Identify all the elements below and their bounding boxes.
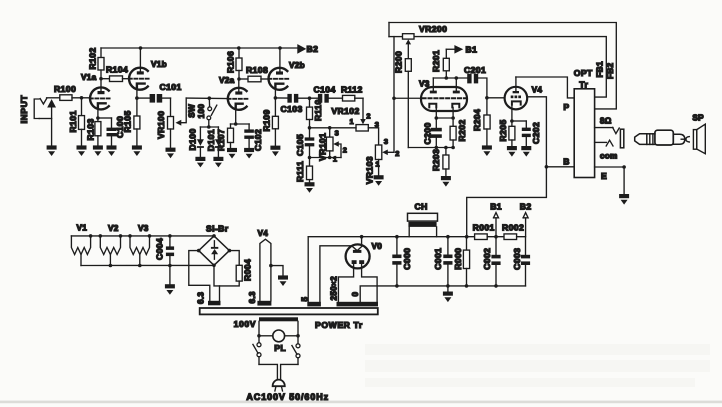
svg-text:C103: C103 bbox=[281, 104, 303, 114]
AC plug bbox=[273, 380, 285, 387]
svg-text:100V: 100V bbox=[234, 319, 256, 329]
wire B to OPT bbox=[546, 166, 574, 168]
wire bottom bus bbox=[310, 157, 342, 159]
svg-text:R002: R002 bbox=[502, 223, 524, 233]
svg-text:R100: R100 bbox=[54, 84, 76, 94]
wire B+ feed bbox=[467, 167, 547, 237]
svg-text:R102: R102 bbox=[88, 47, 98, 69]
lamp PL bbox=[259, 335, 273, 337]
wire VR102 right to VR103 bbox=[368, 128, 378, 145]
wire V0 plates to HV winding bbox=[338, 264, 353, 302]
wire bridge DC- bbox=[214, 265, 220, 301]
svg-text:V1b: V1b bbox=[151, 60, 167, 69]
transformer POWER Tr core bbox=[200, 308, 378, 314]
wire V2a cathode bus bbox=[231, 123, 250, 125]
svg-text:B1: B1 bbox=[466, 45, 478, 55]
svg-text:R204: R204 bbox=[472, 109, 482, 131]
wire primary right bbox=[297, 321, 299, 344]
svg-text:R000: R000 bbox=[453, 248, 463, 270]
ground (E) bbox=[619, 194, 629, 205]
wire primary left bbox=[258, 321, 260, 342]
jack shorting contact bbox=[48, 101, 55, 107]
input jack J1 bbox=[34, 99, 39, 119]
svg-text:VR200: VR200 bbox=[419, 24, 447, 34]
svg-text:V3: V3 bbox=[138, 224, 149, 233]
svg-text:Si-Br: Si-Br bbox=[206, 224, 229, 234]
svg-text:2: 2 bbox=[366, 112, 370, 121]
svg-text:0: 0 bbox=[351, 292, 360, 297]
svg-text:R200: R200 bbox=[394, 51, 404, 73]
svg-text:1: 1 bbox=[350, 117, 354, 126]
svg-text:V1: V1 bbox=[77, 224, 88, 233]
svg-text:PL: PL bbox=[274, 343, 286, 353]
svg-text:R004: R004 bbox=[242, 259, 252, 281]
svg-text:VR102: VR102 bbox=[331, 106, 359, 116]
ground (C001) bbox=[443, 292, 453, 303]
wire R200 bottom bus bbox=[408, 147, 453, 149]
svg-text:com: com bbox=[600, 152, 618, 161]
node (V2a plate) bbox=[237, 77, 241, 81]
ground (R205) bbox=[507, 146, 517, 157]
wire V4 screen to B bbox=[527, 97, 546, 167]
svg-text:C001: C001 bbox=[433, 248, 443, 270]
svg-text:OPT: OPT bbox=[574, 68, 593, 78]
node B1 (arrow up) bbox=[495, 218, 497, 237]
node (V4 cathode) bbox=[510, 119, 514, 123]
svg-text:SP: SP bbox=[692, 113, 704, 122]
svg-text:C003: C003 bbox=[512, 248, 522, 270]
node B2 (arrow up) bbox=[523, 213, 528, 218]
svg-text:D100: D100 bbox=[188, 128, 198, 150]
node (V4 grid) bbox=[485, 96, 489, 100]
wire VR100 wiper to V2a grid bbox=[186, 97, 228, 100]
svg-text:B2: B2 bbox=[520, 202, 532, 212]
svg-text:FB1: FB1 bbox=[596, 61, 605, 78]
ground (C102) bbox=[244, 148, 254, 159]
wire V4 plate to OPT P bbox=[516, 77, 574, 98]
wire R100 to V1a grid bbox=[72, 97, 90, 99]
svg-text:C202: C202 bbox=[531, 122, 541, 144]
svg-text:B: B bbox=[563, 157, 570, 167]
node (R101 tap) bbox=[80, 96, 84, 100]
svg-text:R203: R203 bbox=[431, 149, 441, 171]
svg-text:2: 2 bbox=[395, 149, 399, 158]
wire cathode bus bbox=[436, 117, 453, 119]
wire jack to R100 bbox=[47, 97, 60, 99]
ground (R105) bbox=[132, 145, 142, 156]
svg-text:3: 3 bbox=[335, 128, 339, 137]
ground (input) bbox=[47, 145, 57, 156]
svg-text:B1: B1 bbox=[490, 202, 502, 212]
ground (R101) bbox=[77, 145, 87, 156]
svg-text:6.3: 6.3 bbox=[248, 291, 257, 303]
svg-text:1: 1 bbox=[375, 160, 379, 169]
speaker jack com contact bbox=[595, 141, 607, 143]
ground (R109) bbox=[270, 146, 280, 157]
node (V1a cathode) bbox=[96, 116, 100, 120]
wire B2 rail bbox=[101, 47, 298, 49]
node B2 (arrow) bbox=[298, 46, 304, 53]
ground (R107) bbox=[227, 148, 237, 159]
svg-text:R108: R108 bbox=[246, 65, 268, 75]
svg-text:V4: V4 bbox=[258, 229, 269, 238]
ground (D101) bbox=[213, 157, 223, 168]
svg-text:D101: D101 bbox=[206, 129, 216, 151]
svg-text:100: 100 bbox=[197, 104, 206, 119]
svg-text:R101: R101 bbox=[68, 110, 78, 132]
ground (R204) bbox=[482, 145, 492, 156]
wire B+ rail bbox=[308, 236, 474, 238]
svg-text:C000: C000 bbox=[402, 248, 412, 270]
ground (C004) bbox=[165, 284, 175, 295]
svg-text:CH: CH bbox=[415, 202, 428, 212]
ground (VR103) bbox=[374, 175, 384, 186]
wire FB to V3 grid bbox=[393, 37, 395, 99]
wire feedback FB2 top bbox=[389, 23, 616, 109]
svg-text:R001: R001 bbox=[473, 223, 495, 233]
svg-text:V1a: V1a bbox=[81, 73, 97, 82]
svg-text:1: 1 bbox=[333, 154, 337, 163]
node (V2b cathode) bbox=[274, 96, 278, 100]
svg-text:R111: R111 bbox=[295, 161, 305, 182]
svg-text:V2b: V2b bbox=[289, 61, 305, 70]
svg-text:FB2: FB2 bbox=[606, 62, 615, 79]
svg-text:R107: R107 bbox=[216, 129, 226, 151]
svg-text:V2: V2 bbox=[108, 224, 119, 233]
wire VR102 left bbox=[310, 127, 357, 129]
svg-text:SW: SW bbox=[188, 104, 197, 118]
wire feedback FB1 bbox=[389, 36, 403, 38]
svg-text:R105: R105 bbox=[123, 110, 133, 132]
switch mains left bbox=[257, 343, 261, 347]
wire V3 plate bus bbox=[433, 77, 467, 79]
svg-text:R112: R112 bbox=[341, 84, 363, 94]
svg-text:C101: C101 bbox=[160, 82, 182, 92]
svg-text:3: 3 bbox=[384, 137, 388, 146]
ground (C202) bbox=[521, 146, 531, 157]
node (B junction) bbox=[545, 165, 549, 169]
svg-text:250×2: 250×2 bbox=[329, 276, 338, 301]
svg-text:R205: R205 bbox=[498, 119, 508, 141]
node (V1a plate) bbox=[99, 77, 103, 81]
switch mains right bbox=[296, 344, 300, 348]
svg-text:INPUT: INPUT bbox=[19, 95, 29, 124]
speaker jack sleeve bbox=[620, 129, 623, 148]
node (SW tap) bbox=[208, 96, 212, 100]
wire V2b out bbox=[275, 97, 287, 99]
svg-text:C104: C104 bbox=[314, 84, 336, 94]
node (R110 bottom) bbox=[308, 126, 312, 130]
svg-text:6.3: 6.3 bbox=[196, 292, 205, 304]
svg-text:C002: C002 bbox=[482, 248, 492, 270]
phone plug bbox=[635, 134, 647, 145]
svg-text:POWER Tr: POWER Tr bbox=[315, 320, 363, 330]
svg-text:8Ω: 8Ω bbox=[600, 117, 612, 126]
svg-text:B2: B2 bbox=[307, 44, 319, 54]
node (R110 tap) bbox=[308, 96, 312, 100]
svg-text:R201: R201 bbox=[431, 50, 441, 72]
wire diode bus bbox=[200, 126, 218, 128]
svg-text:R110: R110 bbox=[313, 99, 323, 121]
ground (D100) bbox=[195, 157, 205, 168]
svg-text:VR100: VR100 bbox=[156, 111, 166, 139]
svg-text:V2a: V2a bbox=[219, 76, 235, 85]
svg-text:V4: V4 bbox=[532, 86, 543, 95]
node B1 (arrow right) bbox=[446, 48, 455, 50]
svg-text:V0: V0 bbox=[372, 242, 383, 251]
svg-text:P: P bbox=[563, 102, 569, 112]
ground (R103) bbox=[93, 145, 103, 156]
svg-text:C200: C200 bbox=[423, 122, 433, 144]
node (V1b cathode) bbox=[135, 96, 139, 100]
svg-text:VR103: VR103 bbox=[365, 156, 375, 184]
ground (C100) bbox=[107, 145, 117, 156]
ground (R111) bbox=[305, 182, 315, 193]
wire heater top rail bbox=[71, 235, 214, 237]
svg-text:E: E bbox=[601, 171, 607, 181]
svg-text:R109: R109 bbox=[261, 109, 271, 131]
svg-text:C201: C201 bbox=[464, 65, 486, 75]
wire bridge AC1 to 6.3V winding bbox=[189, 251, 210, 301]
winding 100V primary bbox=[259, 317, 298, 321]
ground (V4 heater) bbox=[278, 275, 288, 286]
ground (VR100) bbox=[166, 148, 176, 159]
scan artifact bottom line bbox=[0, 401, 722, 404]
wire mains cord bbox=[259, 364, 277, 379]
wire HV centre tap B- rail bbox=[360, 286, 525, 302]
svg-text:R202: R202 bbox=[457, 119, 467, 141]
svg-text:R106: R106 bbox=[226, 51, 236, 73]
svg-text:C004: C004 bbox=[154, 238, 164, 260]
node (C105 bottom) bbox=[308, 156, 312, 160]
svg-text:R104: R104 bbox=[106, 65, 128, 75]
ground (R203) bbox=[441, 176, 451, 187]
svg-text:2: 2 bbox=[343, 146, 347, 155]
svg-text:R103: R103 bbox=[86, 118, 96, 140]
scan artifact ghost rows bbox=[365, 344, 710, 387]
svg-text:C105: C105 bbox=[295, 134, 305, 156]
wire heater bottom rail bbox=[81, 264, 214, 266]
